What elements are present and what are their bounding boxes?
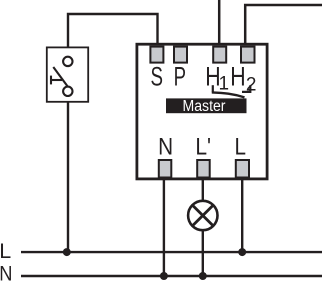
switch lever xyxy=(53,67,67,86)
svg-text:N: N xyxy=(158,133,173,160)
switch contact upper circle xyxy=(63,57,72,66)
wire L terminal to L rail xyxy=(241,178,243,252)
wire N terminal to N rail xyxy=(163,178,165,276)
contact blade xyxy=(212,92,245,97)
switch actuator T-bar xyxy=(50,76,52,85)
svg-text:L: L xyxy=(0,239,11,263)
switch S1 box xyxy=(47,47,88,101)
svg-text:L': L' xyxy=(195,133,211,160)
contact H1 stub xyxy=(212,85,214,92)
terminal L' xyxy=(197,160,210,178)
wire switch-bottom to L rail xyxy=(67,102,69,252)
terminal H2 xyxy=(241,47,255,63)
terminal S xyxy=(150,47,163,63)
svg-text:1: 1 xyxy=(219,73,230,94)
Master label bar xyxy=(166,98,247,113)
wire top edge to H1 xyxy=(218,0,221,47)
terminal H1 xyxy=(213,47,226,63)
switch contact lower circle xyxy=(63,87,72,96)
junction switch/L rail xyxy=(63,248,71,256)
svg-text:P: P xyxy=(174,62,186,92)
wire H2 to right edge xyxy=(245,5,322,47)
wire lamp to N rail xyxy=(202,230,204,276)
terminal P xyxy=(174,47,187,63)
lamp E1 xyxy=(188,201,217,230)
svg-text:N: N xyxy=(0,261,12,285)
device box U1 xyxy=(137,44,267,179)
N rail xyxy=(21,275,322,277)
svg-text:Master: Master xyxy=(183,98,226,115)
wire L' terminal to lamp xyxy=(202,178,204,201)
junction lamp/N rail xyxy=(199,272,207,280)
junction L terminal/L rail xyxy=(238,248,246,256)
contact H2 stub xyxy=(242,85,250,92)
junction N terminal/N rail xyxy=(160,272,168,280)
svg-text:S: S xyxy=(151,62,164,92)
terminal N xyxy=(159,160,172,178)
wire switch-top to S terminal xyxy=(68,14,158,47)
L rail xyxy=(21,251,322,253)
svg-text:L: L xyxy=(234,133,246,160)
terminal L xyxy=(236,160,249,178)
svg-text:H: H xyxy=(230,62,245,92)
